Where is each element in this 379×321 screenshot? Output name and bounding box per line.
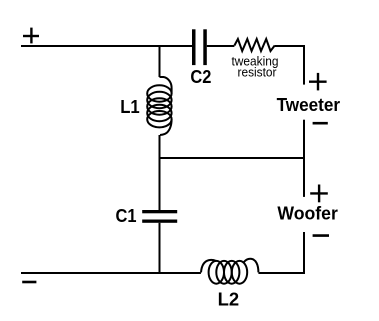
inductor L2 (horizontal coil) (201, 259, 258, 284)
terminal plus (+) input (23, 28, 39, 44)
label L2 (218, 289, 240, 310)
capacitor C1 (142, 210, 177, 223)
svg-text:C2: C2 (190, 66, 211, 87)
svg-text:L2: L2 (218, 289, 240, 310)
wire bottom: - terminal to L2 (through C1 node) (21, 272, 201, 274)
label Woofer (277, 202, 338, 223)
woofer plus (+) symbol (310, 185, 328, 203)
label C1 (116, 205, 137, 226)
svg-text:resistor: resistor (238, 65, 278, 80)
svg-text:Tweeter: Tweeter (277, 94, 341, 115)
wire L2 to bottom-right corner (258, 272, 305, 274)
tweeter plus (+) symbol (309, 73, 327, 91)
svg-text:L1: L1 (120, 96, 140, 117)
wire top: + terminal to C2 left plate (through node at x=160) (21, 45, 192, 47)
svg-text:C1: C1 (116, 205, 137, 226)
wire C2 to tweaking resistor (207, 45, 235, 47)
woofer minus (-) symbol (313, 234, 329, 237)
wire node A down to inductor L1 (159, 46, 161, 77)
wire C1 to bottom wire (159, 223, 161, 273)
svg-text:Woofer: Woofer (277, 202, 338, 223)
label L1 (120, 96, 140, 117)
inductor L1 (vertical coil) (147, 77, 171, 135)
wire woofer - down to bottom-right corner (303, 232, 305, 273)
label tweaking resistor (232, 54, 279, 80)
label Tweeter (277, 94, 341, 115)
wire L1 to capacitor C1 (through middle node) (159, 135, 161, 210)
wire resistor to top-right corner down to tweeter + terminal (275, 45, 305, 85)
capacitor C2 (192, 29, 207, 65)
terminal minus (-) input (22, 281, 36, 284)
wire tweeter - down through middle node to woofer + (303, 120, 305, 197)
resistor (tweaking resistor) zigzag (234, 39, 274, 51)
tweeter minus (-) symbol (313, 122, 328, 125)
label C2 (190, 66, 211, 87)
wire middle node to right vertical (tweeter-/woofer+ junction) (160, 157, 305, 159)
